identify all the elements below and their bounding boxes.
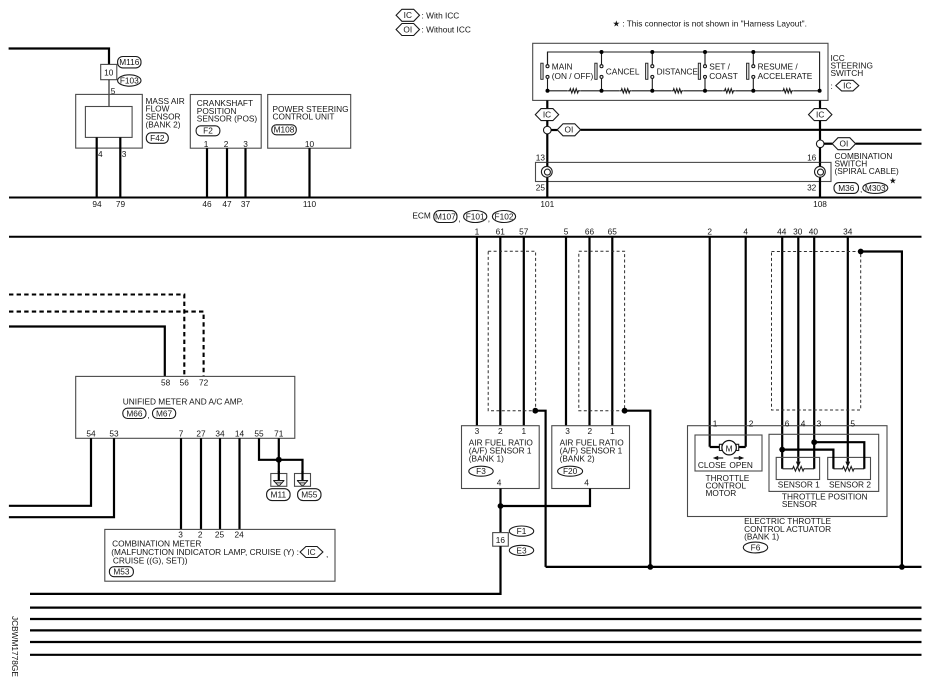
svg-text:7: 7: [179, 428, 184, 438]
svg-text:F2: F2: [203, 126, 213, 136]
shield box A/F2: [579, 251, 625, 410]
wire crank pin 1 to ECM 46: [206, 148, 208, 197]
svg-text:2: 2: [749, 418, 754, 428]
ICC steering switch label: [831, 53, 873, 91]
svg-text:(ON / OFF): (ON / OFF): [552, 71, 594, 81]
connector F102: [492, 211, 515, 223]
ICC steering switch box: [533, 43, 828, 100]
svg-text:47: 47: [222, 199, 232, 209]
wire battery feed to joint connector: [9, 49, 109, 65]
power steering label: [273, 104, 349, 122]
wire MAF pin 3 to ECM 79: [119, 137, 121, 196]
svg-text:,: ,: [326, 549, 328, 559]
svg-text:F42: F42: [150, 133, 165, 143]
svg-text:(BANK 2): (BANK 2): [146, 119, 181, 129]
svg-text:OI: OI: [403, 24, 412, 34]
combination switch spiral cable box: [536, 162, 832, 181]
junction node drain2: [647, 564, 653, 570]
svg-text:SWITCH: SWITCH: [831, 68, 864, 78]
SET/COAST switch: [698, 52, 738, 91]
svg-text:72: 72: [199, 377, 209, 387]
svg-text:4: 4: [801, 418, 806, 428]
wire hexagon right to circle: [819, 121, 821, 140]
connector F2: [196, 126, 220, 136]
air fuel ratio sensor 1 bank 2 box F20: [552, 426, 630, 489]
wire ECM 65 to A/F2 pin 1: [611, 237, 613, 426]
svg-text:ECM: ECM: [412, 210, 431, 220]
wire ECM 4 to motor pin 2: [745, 237, 747, 447]
connector M55: [298, 489, 321, 501]
svg-text:1: 1: [475, 226, 480, 236]
svg-text:OPEN: OPEN: [729, 460, 753, 470]
crank pin labels 1 2 3: [204, 139, 249, 149]
connector M303: [863, 183, 888, 194]
DISTANCE switch: [646, 52, 699, 91]
sensor labels: [778, 480, 872, 490]
svg-text:RESUME /: RESUME /: [758, 61, 799, 71]
wire 32 to ECM 108: [819, 182, 821, 197]
wire 14 to meter 24: [238, 438, 240, 529]
svg-text:5: 5: [564, 226, 569, 236]
svg-text:79: 79: [116, 199, 126, 209]
connector M66: [123, 408, 146, 418]
svg-text:M67: M67: [156, 408, 173, 418]
wire 27 to meter 2: [200, 438, 202, 529]
connector M53: [109, 567, 133, 577]
svg-text:1: 1: [713, 418, 718, 428]
ground junction node: [276, 457, 282, 463]
wire hexagon to circle: [546, 121, 548, 127]
connector M107: [434, 211, 457, 223]
svg-text:IC: IC: [404, 10, 412, 20]
wire ECM 34 to TPS pin 5: [847, 237, 849, 462]
sensor1 wiper arrow: [796, 462, 801, 468]
svg-text:CANCEL: CANCEL: [606, 66, 640, 76]
svg-text:2: 2: [224, 139, 229, 149]
wire ECM 2 to motor pin 1: [709, 237, 711, 447]
wire ECM 57 to A/F1 pin 1: [523, 237, 525, 426]
wire to pin 58: [9, 327, 165, 377]
wire ECM 1 to A/F1 pin 3: [476, 237, 478, 426]
svg-text:,: ,: [147, 410, 149, 420]
TPS ground jumper: [814, 442, 864, 469]
bottom bus line 4: [30, 629, 922, 631]
svg-text:94: 94: [92, 199, 102, 209]
wire circle down to spiral cable 16: [819, 148, 821, 163]
air fuel ratio sensor 1 bank 1 box F3: [462, 426, 540, 489]
node circle left: [544, 126, 552, 134]
meter IC hexagon: [300, 547, 323, 558]
bottom bus line 5: [30, 641, 922, 643]
wire circle to OI hexagon left: [551, 129, 557, 131]
svg-text:5: 5: [850, 418, 855, 428]
svg-text:F20: F20: [563, 466, 578, 476]
combination meter box M53: [105, 529, 335, 581]
svg-text:SENSOR (POS): SENSOR (POS): [197, 114, 258, 124]
shielded cable to pin 72: [9, 312, 204, 377]
svg-text:M: M: [726, 444, 733, 454]
svg-text:IC: IC: [843, 81, 851, 91]
svg-text:37: 37: [241, 199, 251, 209]
svg-text:2: 2: [707, 226, 712, 236]
svg-text:108: 108: [813, 199, 827, 209]
connector M11: [267, 489, 291, 501]
ICC bottom bus wire with resistors: [548, 89, 820, 93]
svg-text:25: 25: [215, 529, 225, 539]
wire ECM 30 to TPS pin 4: [797, 237, 799, 462]
svg-text:16: 16: [496, 535, 506, 545]
bottom bus line 2: [30, 606, 922, 608]
node circle right: [816, 140, 824, 148]
shield drain wire A/F2: [625, 411, 651, 567]
svg-text:3: 3: [475, 426, 480, 436]
unified meter top pin labels: [161, 377, 209, 387]
shield box A/F1: [488, 251, 535, 410]
wire MAF pin 4 to ECM 94: [96, 137, 98, 196]
wire junction to connector 16: [499, 506, 501, 533]
connector M36: [834, 183, 859, 194]
wire ECM 66 to A/F2 pin 2: [588, 237, 590, 426]
actuator pin labels: [713, 418, 856, 428]
svg-text:M108: M108: [274, 125, 295, 135]
ground M11: [271, 471, 287, 486]
TPS supply jumper: [782, 450, 833, 469]
power steering control unit box M108: [268, 95, 351, 149]
ECM lower pin numbers: [475, 226, 853, 236]
label IC hexagon: [836, 80, 859, 91]
svg-text:JCBWM1778GE: JCBWM1778GE: [10, 616, 20, 677]
wire OI branch left to right edge: [581, 129, 922, 131]
wire ECM 40 to TPS pin 3: [813, 237, 815, 469]
svg-text:M66: M66: [126, 408, 143, 418]
svg-text:57: 57: [519, 226, 529, 236]
A/F2 pin labels: [565, 426, 615, 436]
sensor 2 resistor: [833, 468, 841, 470]
wire A/F1 pin 4 down: [499, 489, 501, 507]
electric throttle actuator label: [744, 516, 831, 541]
close arrow: [713, 456, 723, 460]
wire 10 to MAF pin 5: [108, 80, 110, 107]
wire 7 to meter 3: [180, 438, 182, 529]
ICC bottom bus junction dots: [546, 89, 822, 93]
svg-text:13: 13: [536, 152, 546, 162]
svg-text:34: 34: [843, 226, 853, 236]
svg-text:: With ICC: : With ICC: [422, 10, 460, 20]
svg-text:53: 53: [109, 428, 119, 438]
svg-text:★: ★: [889, 176, 896, 186]
wire connector 16 to ground bus: [30, 546, 501, 594]
svg-text:UNIFIED METER AND A/C AMP.: UNIFIED METER AND A/C AMP.: [123, 396, 244, 406]
wire crank pin 3 to ECM 37: [244, 148, 246, 197]
svg-text:3: 3: [243, 139, 248, 149]
wire OI branch right to edge: [856, 143, 922, 145]
svg-text:M107: M107: [435, 211, 456, 221]
svg-text:CLOSE: CLOSE: [698, 460, 727, 470]
shield drain wire A/F1: [535, 411, 545, 567]
sensor 2 box: [828, 457, 871, 479]
sensor 1 resistor: [783, 468, 792, 470]
junction node drain3: [899, 564, 905, 570]
combination meter label: [111, 539, 299, 566]
A/F shield ground bus: [546, 566, 922, 568]
wire ICC right output: [819, 100, 821, 108]
svg-text:1: 1: [204, 139, 209, 149]
connector M116: [118, 57, 141, 68]
close open labels: [698, 460, 753, 470]
crankshaft label: [197, 98, 258, 124]
svg-text:4: 4: [497, 477, 502, 487]
mass air flow sensor box F42: [76, 94, 143, 148]
spiral symbol right: [815, 166, 826, 177]
svg-text:46: 46: [202, 199, 212, 209]
svg-text:MOTOR: MOTOR: [706, 488, 737, 498]
svg-text:DISTANCE: DISTANCE: [657, 66, 699, 76]
svg-text:54: 54: [86, 428, 96, 438]
wire 25 to ECM 101: [546, 182, 548, 197]
ECM bus line upper: [9, 197, 922, 199]
svg-text:4: 4: [584, 477, 589, 487]
svg-text:F3: F3: [476, 466, 486, 476]
wire circle down to spiral cable 13: [546, 134, 548, 163]
open arrow: [734, 456, 744, 460]
motor M1: [719, 441, 738, 455]
wire PS pin 10 to ECM 110: [308, 148, 310, 197]
connector F6: [743, 542, 767, 553]
svg-text:F6: F6: [751, 542, 761, 552]
svg-text:66: 66: [585, 226, 595, 236]
wire 71 to ground M11: [278, 438, 280, 473]
svg-text:SENSOR: SENSOR: [782, 499, 817, 509]
ECM upper pin numbers: [92, 199, 827, 209]
svg-text::: :: [831, 81, 833, 91]
svg-text:ACCELERATE: ACCELERATE: [758, 71, 813, 81]
shield drain wire TPS: [861, 252, 902, 567]
crankshaft position sensor box F2: [190, 95, 261, 149]
svg-text:34: 34: [215, 428, 225, 438]
svg-text:25: 25: [536, 182, 546, 192]
svg-text:110: 110: [303, 199, 317, 209]
legend OI symbol: [396, 24, 419, 36]
svg-text:M116: M116: [119, 57, 140, 67]
svg-text:71: 71: [274, 428, 284, 438]
connector M67: [153, 408, 176, 418]
wire A/F2 pin 4 to junction: [501, 489, 591, 507]
wire 34 to meter 25: [219, 438, 221, 529]
svg-text:4: 4: [98, 149, 103, 159]
A/F2 label: [560, 437, 625, 463]
svg-text:40: 40: [809, 226, 819, 236]
svg-text:,: ,: [458, 214, 460, 224]
svg-text:M303: M303: [865, 183, 886, 193]
wire 54 to left: [9, 438, 91, 506]
wire through spiral cable left: [546, 162, 548, 181]
connector E3: [509, 545, 533, 555]
MAF label: [146, 96, 185, 129]
IC hexagon right: [809, 109, 832, 121]
ICC top bus wire: [548, 52, 820, 91]
meter pin labels: [178, 529, 244, 539]
svg-text:3: 3: [122, 149, 127, 159]
throttle position sensor outer box: [769, 434, 879, 491]
svg-text:SET /: SET /: [709, 61, 730, 71]
combination switch label: [835, 151, 899, 185]
svg-text:2: 2: [498, 426, 503, 436]
TPS junction node pin3: [811, 439, 817, 445]
wire 53 to left: [9, 438, 114, 517]
svg-text:SENSOR 1: SENSOR 1: [778, 480, 820, 490]
ground M55: [295, 471, 311, 486]
svg-text:M53: M53: [113, 567, 130, 577]
sensor2 wiper arrow: [845, 462, 850, 468]
IC hexagon left: [535, 109, 558, 121]
CANCEL switch: [595, 52, 640, 91]
wire ECM 5 to A/F2 pin 3: [565, 237, 567, 426]
svg-text:56: 56: [180, 377, 190, 387]
svg-text:IC: IC: [816, 110, 824, 120]
sensor 1 box: [776, 457, 819, 479]
svg-text:,: ,: [860, 184, 862, 194]
svg-text:30: 30: [793, 226, 803, 236]
wire through spiral cable right: [819, 162, 821, 181]
svg-text:58: 58: [161, 377, 171, 387]
svg-text:F102: F102: [495, 211, 514, 221]
svg-text:44: 44: [777, 226, 787, 236]
legend IC symbol: [396, 9, 419, 21]
connector F3: [469, 466, 493, 476]
wire branch to ground M55: [279, 460, 303, 474]
connector F101: [464, 211, 487, 223]
svg-text:10: 10: [305, 139, 315, 149]
unified meter and A/C amp box: [76, 376, 295, 438]
wire circle to OI hexagon right: [824, 143, 832, 145]
shielded cable to pin 56: [9, 295, 184, 377]
wire ICC left output: [546, 100, 548, 108]
svg-text:CONTROL UNIT: CONTROL UNIT: [273, 112, 335, 122]
MAIN switch: [541, 52, 594, 91]
throttle position sensor label: [782, 491, 868, 509]
connector F42: [146, 133, 168, 144]
shield drain node TPS: [858, 249, 864, 255]
shield box TPS: [772, 252, 861, 411]
joint connector box 16: [493, 533, 509, 547]
unified meter bottom pin labels: [86, 428, 283, 438]
svg-text:6: 6: [785, 418, 790, 428]
wire ECM 44 to TPS pin 6: [781, 237, 783, 469]
ICC top bus junction dots: [600, 50, 756, 54]
svg-text:27: 27: [196, 428, 206, 438]
svg-text:F101: F101: [466, 211, 485, 221]
A/F1 pin labels: [475, 426, 527, 436]
bottom bus line 6: [30, 654, 922, 656]
svg-text:16: 16: [807, 152, 817, 162]
svg-text:1: 1: [610, 426, 615, 436]
spiral symbol left: [541, 166, 552, 177]
svg-text:3: 3: [565, 426, 570, 436]
svg-text:M55: M55: [301, 490, 318, 500]
throttle control motor label: [706, 473, 750, 498]
OI hexagon right: [832, 138, 855, 150]
throttle control motor box: [695, 435, 762, 471]
shield drain node A/F2: [622, 408, 628, 414]
bottom bus line 3: [30, 618, 922, 620]
svg-text:(BANK 1): (BANK 1): [469, 454, 504, 464]
wire ECM 61 to A/F1 pin 2: [499, 237, 501, 426]
RESUME/ACCELERATE switch: [747, 52, 813, 91]
svg-text:E3: E3: [516, 545, 527, 555]
svg-text:24: 24: [234, 529, 244, 539]
svg-text:CRUISE ((G), SET)): CRUISE ((G), SET)): [113, 555, 188, 565]
svg-text:F1: F1: [517, 526, 527, 536]
svg-text:2: 2: [587, 426, 592, 436]
connector F1: [509, 526, 533, 536]
svg-text:M36: M36: [838, 183, 855, 193]
svg-text:M11: M11: [271, 490, 287, 500]
svg-text:OI: OI: [565, 125, 574, 135]
OI hexagon left: [557, 124, 580, 136]
A/F1 label: [469, 437, 534, 463]
svg-text:1: 1: [521, 426, 526, 436]
svg-text:4: 4: [743, 226, 748, 236]
svg-text:61: 61: [496, 226, 506, 236]
shield drain node A/F1: [532, 408, 538, 414]
junction node A/F grounds: [498, 503, 504, 509]
connector F20: [558, 466, 583, 476]
svg-text:COAST: COAST: [709, 71, 738, 81]
TPS junction node pin6: [779, 447, 785, 453]
svg-text:101: 101: [540, 199, 554, 209]
svg-text:,: ,: [488, 214, 490, 224]
svg-text:55: 55: [254, 428, 264, 438]
svg-text:IC: IC: [543, 110, 551, 120]
svg-text:OI: OI: [840, 139, 849, 149]
svg-text:: Without ICC: : Without ICC: [422, 25, 471, 35]
svg-text:(BANK 1): (BANK 1): [744, 531, 779, 541]
svg-text:10: 10: [104, 67, 114, 77]
svg-text:MAIN: MAIN: [552, 61, 573, 71]
wire crank pin 2 to ECM 47: [226, 148, 228, 197]
svg-text:(BANK 2): (BANK 2): [560, 454, 595, 464]
svg-text:★ : This connector is not show: ★ : This connector is not shown in "Harn…: [613, 18, 807, 28]
joint connector box 10: [101, 64, 117, 79]
svg-text:3: 3: [817, 418, 822, 428]
svg-text:14: 14: [235, 428, 245, 438]
connector F103: [118, 75, 141, 86]
svg-text:IC: IC: [307, 547, 315, 557]
wire 55 to ground junction: [259, 438, 276, 460]
svg-text:F103: F103: [120, 75, 139, 85]
svg-text:32: 32: [807, 182, 817, 192]
connector M108: [272, 125, 297, 135]
svg-text:SENSOR 2: SENSOR 2: [829, 480, 871, 490]
ECM bus line lower: [9, 236, 922, 238]
svg-text:65: 65: [608, 226, 618, 236]
electric throttle control actuator box F6: [688, 426, 888, 517]
